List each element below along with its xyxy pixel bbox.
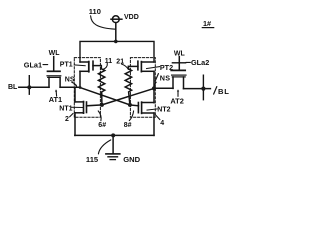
svg-text:11: 11 — [105, 58, 113, 65]
svg-text:GLa1: GLa1 — [24, 61, 42, 70]
svg-text:NT1: NT1 — [59, 105, 72, 112]
svg-text:GND: GND — [123, 155, 140, 164]
svg-text:4: 4 — [160, 120, 164, 127]
svg-text:VDD: VDD — [124, 14, 139, 21]
svg-text:110: 110 — [89, 7, 101, 16]
svg-text:1#: 1# — [203, 19, 211, 28]
svg-text:NS: NS — [65, 76, 75, 83]
svg-text:NS: NS — [160, 74, 171, 83]
svg-text:WL: WL — [174, 51, 186, 58]
svg-text:AT1: AT1 — [49, 95, 62, 104]
svg-text:PT2: PT2 — [160, 63, 173, 72]
svg-text:NT2: NT2 — [157, 107, 170, 114]
svg-text:6#: 6# — [98, 122, 106, 129]
svg-text:21: 21 — [116, 58, 124, 65]
svg-text:BL: BL — [218, 87, 230, 96]
svg-text:AT2: AT2 — [170, 96, 183, 105]
svg-text:PT1: PT1 — [60, 62, 73, 69]
svg-text:WL: WL — [49, 50, 61, 57]
svg-text:BL: BL — [8, 84, 18, 91]
svg-text:8#: 8# — [124, 122, 132, 129]
svg-text:2: 2 — [65, 116, 69, 123]
svg-text:GLa2: GLa2 — [191, 58, 209, 67]
svg-text:115: 115 — [86, 155, 99, 164]
